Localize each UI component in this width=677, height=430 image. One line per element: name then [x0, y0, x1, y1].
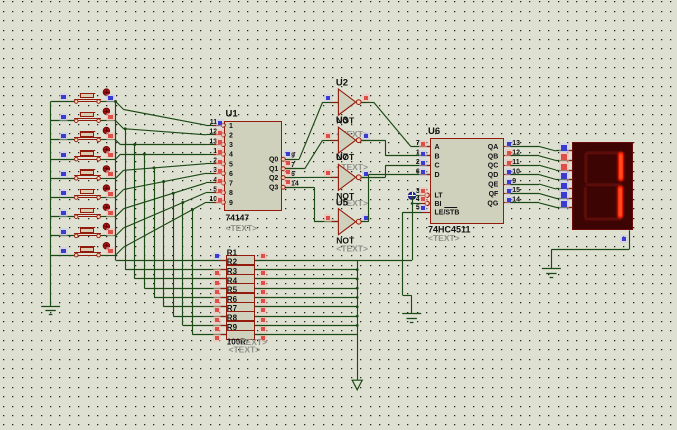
svg-text:<TEXT>: <TEXT>	[428, 233, 460, 243]
svg-text:R6: R6	[227, 295, 238, 304]
wire gate4 to U6.D	[361, 175, 430, 222]
svg-text:D: D	[435, 172, 440, 179]
net SWBUS left bus wire	[50, 102, 52, 307]
svg-text:QC: QC	[488, 163, 499, 170]
display common square	[620, 235, 628, 243]
svg-text:9: 9	[512, 178, 516, 185]
U1 pin 14 Q3	[269, 178, 299, 192]
rail to arrow ground	[357, 260, 359, 380]
wire SW4 to R4	[143, 153, 226, 289]
U1 pin 13	[209, 138, 233, 149]
wire U6.QC to display	[511, 165, 574, 170]
svg-text:QA: QA	[488, 144, 499, 151]
button SW9	[51, 242, 116, 257]
U1 pin 10	[209, 196, 233, 207]
U6 pin 2 C	[416, 159, 440, 170]
U6 pin 11 QC	[488, 159, 520, 170]
U1 pin 12	[209, 129, 233, 140]
svg-text:9: 9	[229, 200, 233, 207]
wire SW3 to R3	[133, 143, 226, 279]
decoder U6 74HC4511	[428, 126, 504, 243]
wire R8 to rail	[255, 324, 359, 327]
svg-text:U2: U2	[336, 77, 348, 88]
resistor R1	[213, 248, 267, 264]
U6 pin 6 D	[416, 168, 440, 179]
display pin square 2	[567, 160, 574, 162]
svg-text:2: 2	[229, 132, 233, 139]
U1 pin 4	[213, 177, 233, 188]
wire U6.QD to display	[511, 175, 574, 180]
U1 pin 11	[210, 119, 233, 130]
display pin square 5	[567, 188, 574, 190]
svg-text:14: 14	[291, 180, 299, 187]
segment d (off)	[584, 218, 622, 221]
resistor R6	[213, 295, 267, 314]
ground G1	[41, 307, 60, 315]
svg-text:74147: 74147	[226, 213, 250, 223]
wire SW1 to U1 pin	[116, 102, 222, 126]
U1 pin 9 Q0	[269, 150, 296, 164]
resistor R7	[213, 304, 267, 324]
svg-text:U5: U5	[336, 198, 349, 209]
wire U1.Q0 to U2 gate1	[285, 102, 338, 159]
display pin square 3	[567, 170, 574, 172]
svg-text:BI: BI	[435, 201, 442, 208]
svg-text:R2: R2	[227, 258, 238, 267]
inverter U5 NOT gate 4	[324, 198, 370, 254]
wire SW1 to R1	[114, 100, 226, 261]
display pin square 4	[567, 179, 574, 181]
label 100R	[227, 337, 267, 354]
wire SW5 to U1 pin	[116, 164, 222, 179]
U6 pin 7 A	[416, 140, 440, 151]
wire U1.Q3 to gate4	[285, 187, 338, 222]
wire U6.QE to display	[511, 184, 574, 189]
wire R6 to rail	[255, 305, 359, 308]
svg-text:8: 8	[229, 190, 233, 197]
resistor R2	[213, 258, 267, 277]
resistor R4	[213, 276, 267, 296]
wire R2 to rail	[255, 268, 359, 271]
svg-text:B: B	[435, 153, 440, 160]
svg-text:U3: U3	[336, 115, 348, 126]
7-segment display DS1	[573, 143, 633, 230]
ground arrow	[352, 380, 362, 390]
wire SW9 to R9	[191, 208, 226, 335]
wire gate2 to U6.B	[361, 140, 430, 156]
svg-text:R8: R8	[227, 314, 238, 323]
display pin square 7	[567, 207, 574, 209]
wire R4 to rail	[255, 287, 359, 290]
button SW4	[51, 146, 116, 161]
ground G3	[542, 269, 561, 278]
svg-text:LE/STB: LE/STB	[435, 210, 460, 217]
svg-text:<TEXT>: <TEXT>	[226, 223, 258, 233]
svg-text:Q0: Q0	[269, 157, 278, 164]
wire SW4 to U1 pin	[116, 154, 222, 159]
button SW7	[51, 204, 116, 219]
button SW8	[51, 223, 116, 238]
U6 pin 1 B	[416, 150, 440, 161]
svg-text:U1: U1	[226, 109, 239, 120]
display pin square 1	[567, 150, 574, 152]
segment c (lit)	[617, 186, 623, 219]
button SW5	[51, 166, 116, 181]
U1 pin 3	[213, 167, 233, 178]
wire SW7 to U1 pin	[116, 183, 222, 217]
U6 pin 5 LE/STB	[403, 204, 459, 217]
ground G2	[402, 314, 421, 323]
svg-text:1: 1	[229, 123, 233, 130]
svg-text:QD: QD	[488, 172, 499, 179]
wire SW2 to R2	[124, 127, 227, 269]
wire U1.Q1 to gate2	[285, 140, 338, 169]
U6 pin 10 QD	[488, 168, 520, 179]
button SW1	[51, 89, 116, 104]
svg-text:C: C	[435, 163, 440, 170]
inverter U2 NOT gate 1	[324, 77, 370, 139]
svg-text:R3: R3	[227, 267, 238, 276]
svg-text:R1: R1	[227, 248, 238, 257]
svg-text:U6: U6	[428, 126, 440, 137]
wire R1 to rail	[255, 260, 358, 262]
svg-text:<TEXT>: <TEXT>	[336, 244, 368, 254]
wire SW3 to U1 pin	[116, 140, 222, 145]
wire SW6 to R6	[162, 180, 226, 307]
segment g (off)	[585, 183, 623, 186]
button SW3	[51, 127, 116, 142]
wire LE/STB to ground	[403, 212, 412, 314]
display pin square 6	[567, 198, 574, 200]
wire SW5 to R5	[153, 166, 227, 297]
U6 pin 3 LT	[416, 187, 444, 200]
wire BI node to R1 rail	[357, 203, 412, 260]
wire SW9 to U1 pin	[116, 202, 222, 255]
button SW2	[51, 108, 116, 122]
svg-text:U7: U7	[336, 152, 348, 163]
wire SW8 to R8	[181, 201, 226, 325]
U6 pin 14 QG	[487, 196, 520, 207]
wire U6.QA to display	[511, 146, 574, 151]
U1 pin 1	[213, 148, 233, 159]
U6 pin 4 BI	[412, 195, 442, 208]
wire R9 to rail	[255, 334, 358, 336]
U6 pin 15 QF	[489, 187, 521, 198]
inverter U3 NOT gate 2	[324, 115, 370, 172]
wire U6.QF to display	[511, 193, 574, 198]
svg-text:5: 5	[229, 161, 233, 168]
wire SW6 to U1 pin	[116, 173, 222, 197]
svg-text:Q1: Q1	[269, 166, 278, 173]
svg-text:R4: R4	[227, 276, 238, 285]
svg-text:R7: R7	[227, 304, 238, 313]
svg-text:QE: QE	[488, 182, 498, 189]
segment e (off)	[584, 186, 587, 218]
svg-text:LT: LT	[435, 193, 444, 200]
wire SW2 to U1 pin	[116, 121, 222, 135]
wire R3 to rail	[255, 278, 359, 281]
wire U1.Q2 to gate3	[285, 176, 338, 178]
svg-text:7: 7	[229, 181, 233, 188]
U1 pin 7 Q1	[269, 159, 296, 173]
wire U6.QG to display	[511, 203, 574, 208]
wire SW7 to R7	[172, 192, 227, 317]
U6 pin 9 QE	[488, 178, 516, 189]
svg-text:A: A	[435, 144, 440, 151]
button SW6	[51, 185, 116, 200]
wire U6.QB to display	[511, 156, 574, 161]
svg-text:R5: R5	[227, 286, 238, 295]
svg-text:Q2: Q2	[269, 175, 278, 182]
U1 pin 6 Q2	[269, 168, 296, 182]
U1 pin 5	[213, 186, 233, 197]
U6 pin 13 QA	[488, 140, 520, 151]
wire LT/BI junction	[411, 196, 414, 205]
svg-text:R9: R9	[227, 323, 238, 332]
svg-text:6: 6	[229, 171, 233, 178]
segment a (off)	[585, 151, 623, 154]
segment f (off)	[584, 152, 587, 184]
U6 pin 12 QB	[488, 149, 520, 160]
wire gate3 to U6.C	[361, 165, 430, 177]
wire R7 to rail	[255, 315, 359, 318]
inverter U7 NOT gate 3	[324, 152, 370, 208]
svg-text:4: 4	[229, 152, 233, 159]
resistor R3	[213, 267, 267, 287]
wire SW8 to U1 pin	[116, 193, 222, 236]
svg-text:QG: QG	[487, 200, 498, 207]
U1 pin 2	[213, 158, 233, 169]
resistor R8	[213, 314, 267, 334]
svg-text:3: 3	[229, 142, 233, 149]
svg-text:QB: QB	[488, 153, 499, 160]
origin marker at LT/BI	[408, 192, 416, 200]
svg-text:Q3: Q3	[269, 185, 278, 192]
resistor R9	[213, 323, 267, 342]
encoder U1 74147	[225, 109, 282, 234]
wire display common to ground	[551, 230, 629, 268]
svg-text:<TEXT>: <TEXT>	[229, 344, 261, 354]
segment b (lit)	[618, 152, 624, 181]
resistor R5	[213, 286, 267, 305]
wire gate1 to U6.A	[361, 102, 430, 146]
wire R5 to rail	[255, 296, 359, 299]
svg-text:QF: QF	[489, 191, 499, 198]
